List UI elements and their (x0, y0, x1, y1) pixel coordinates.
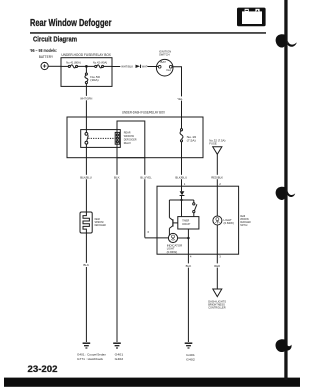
BLU/YEL into T6 and indicator wire (145, 237, 169, 239)
svg-text:BLK: BLK (186, 264, 192, 268)
svg-text:BLK/BLU: BLK/BLU (80, 175, 92, 179)
svg-text:No.42 (40A): No.42 (40A) (93, 60, 107, 64)
wire WHT/BLK to ignition switch (112, 66, 158, 68)
light bulb (213, 216, 222, 225)
svg-text:(30A): (30A) (90, 78, 98, 82)
diode D (180, 191, 185, 195)
svg-text:G402: G402 (115, 357, 124, 361)
wire to relay contact (85, 117, 87, 133)
dash lights brightness controller triangle (213, 289, 222, 297)
REAR WINDOW DEFOGGER SWITCH box (157, 186, 239, 254)
battery icon top-right (237, 8, 266, 27)
svg-text:RED/BLK: RED/BLK (211, 175, 223, 179)
rear window defogger element (80, 212, 92, 233)
binder ring 2 (276, 187, 286, 200)
ground G401/G402 (relay coil) (113, 343, 121, 348)
T1 wire down + diode (181, 186, 183, 191)
connector arrow (136, 65, 141, 68)
wire ignition to YEL drop (172, 67, 182, 117)
svg-text:’96 – 98 models:: ’96 – 98 models: (30, 48, 58, 53)
svg-text:G771 : Hatchback: G771 : Hatchback (77, 357, 104, 361)
wire BLK/BLU (to defogger) (85, 158, 87, 212)
T4 wire BLK to ground (187, 254, 189, 342)
bottom black bar (4, 378, 300, 387)
svg-text:G402: G402 (186, 358, 195, 362)
under-hood box (61, 58, 112, 87)
binder ring 3 (276, 339, 286, 352)
svg-text:RED: RED (214, 264, 221, 268)
indicator light (168, 233, 177, 242)
svg-text:Rear Window Defogger: Rear Window Defogger (30, 18, 112, 29)
svg-text:CIRCUIT: CIRCUIT (182, 222, 191, 226)
svg-text:SWITCH: SWITCH (240, 223, 247, 227)
WHT/GRN wire down from under-hood box (85, 86, 87, 117)
wire BLK (relay coil to ground) (116, 158, 118, 342)
relay label box (117, 121, 145, 158)
svg-text:WHT/BLK: WHT/BLK (121, 64, 133, 68)
transistor Q (169, 218, 178, 238)
relay contact rect (81, 130, 121, 148)
junction node (85, 65, 88, 68)
svg-text:BLK: BLK (114, 175, 120, 179)
spine binding line (284, 0, 287, 380)
svg-text:DEFOGGER: DEFOGGER (95, 223, 106, 227)
svg-text:No.41 (80A): No.41 (80A) (66, 60, 81, 64)
svg-text:RELAY: RELAY (124, 141, 131, 145)
ground G401/G771 (element) (83, 343, 91, 348)
junction and branch rails (180, 199, 182, 201)
under-dash box (67, 117, 203, 158)
svg-text:SWITCH: SWITCH (159, 53, 170, 57)
relay dashed link (88, 137, 115, 139)
svg-text:WHT: WHT (142, 64, 148, 68)
T3 wire RED to controller (216, 254, 218, 289)
T2 wire down to LIGHT (216, 186, 218, 216)
binder ring 1 (276, 34, 286, 47)
svg-text:WHT/GRN: WHT/GRN (80, 96, 92, 100)
relay contacts (85, 133, 88, 145)
svg-text:YEL: YEL (177, 97, 183, 101)
svg-text:UNDER-HOOD FUSE/RELAY BOX: UNDER-HOOD FUSE/RELAY BOX (61, 53, 111, 57)
wire element to ground BLK (85, 233, 87, 342)
wire BLU/YEL (coil to switch) (144, 158, 146, 238)
wire battery to under-hood box (48, 65, 61, 67)
timer to indicator junction (187, 229, 189, 254)
left leg to transistor (168, 200, 170, 218)
TIMER CIRCUIT box (178, 217, 199, 229)
svg-text:(0.84W): (0.84W) (167, 250, 178, 254)
svg-text:BLK/BLU: BLK/BLU (175, 175, 187, 179)
fuse No.16 (7.5A) (181, 117, 183, 129)
right leg with switch contacts (193, 200, 195, 203)
svg-text:23-202: 23-202 (28, 364, 58, 374)
svg-text:UNDER-DASH FUSE/RELAY BOX: UNDER-DASH FUSE/RELAY BOX (122, 110, 166, 114)
wire relay contact down/out BLK/BLU (85, 144, 87, 158)
ignition switch (156, 59, 173, 76)
ground G401/G402 (switch) (185, 343, 193, 348)
svg-text:CONTROLLER: CONTROLLER (208, 306, 225, 310)
svg-text:BATTERY: BATTERY (39, 55, 54, 59)
bus wire inside under-hood box (61, 65, 68, 67)
svg-text:(0.84W): (0.84W) (224, 221, 234, 225)
svg-text:(7.5A): (7.5A) (187, 138, 196, 142)
svg-text:BLU/YEL: BLU/YEL (140, 175, 151, 179)
svg-text:IG2: IG2 (166, 68, 171, 72)
svg-text:Circuit Diagram: Circuit Diagram (33, 34, 77, 43)
wire BLK/BLU (fuse16 to switch T1) (181, 158, 183, 187)
relay coil (115, 132, 119, 144)
wire RED/BLK to switch T2 (216, 154, 218, 186)
svg-text:FUSE: FUSE (209, 142, 216, 146)
svg-text:BLK: BLK (83, 263, 89, 267)
svg-text:BAT: BAT (160, 60, 166, 64)
fuse No.50 (30A) vertical (85, 66, 87, 73)
YEL label (177, 96, 187, 100)
title rule (30, 32, 266, 34)
battery symbol (41, 62, 48, 69)
